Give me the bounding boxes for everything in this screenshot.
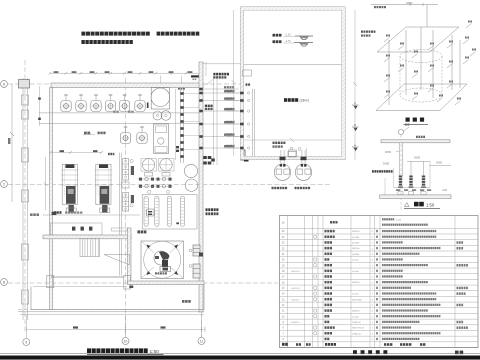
svg-text:Y200L2-6: Y200L2-6 [352,322,362,324]
water level 1 [295,36,313,40]
circled num 1 [130,159,133,162]
label block right of wall [205,105,213,108]
pump row1 3 [91,95,101,112]
valve cluster at wall bottom [203,156,207,159]
stairs [80,239,100,257]
flue diagonals [141,241,154,253]
section axis circle [398,129,403,134]
section pump stacks [399,176,402,178]
plan top wall [51,83,203,88]
flue label [155,272,167,274]
pump row1 2 [76,95,86,112]
collector dark blob [176,222,179,224]
dim numbers [54,71,59,73]
pipe to tank room [241,150,246,160]
water level 2 [294,43,313,47]
svg-text:9: 9 [25,341,27,345]
tank room dim vertical left [233,10,235,156]
label bottom left of boilers [54,211,62,214]
svg-text:B-02-P-2: B-02-P-2 [291,299,300,301]
water level labels [273,34,282,37]
dim line y215 [43,214,140,216]
svg-text:DN50: DN50 [385,151,392,154]
dark bar below dim line [191,75,199,77]
wall top line x206 [205,62,207,76]
section dim text row [396,189,400,191]
svg-text:1:50: 1:50 [426,202,435,207]
table header content [382,218,394,220]
svg-text:B: B [3,281,5,285]
softener unit [154,124,169,154]
circ pump unit 1 [142,159,154,171]
vertical wall x127 [128,228,132,284]
axis bubble 11 [201,315,203,337]
plan title [87,348,148,353]
small pump circles below tank [153,111,162,120]
stem above tank [160,76,162,84]
circled num 2 [130,204,133,207]
tank room dim vertical [354,10,356,160]
axis bubble D [1,81,8,88]
wall segment 6 [22,290,29,304]
svg-text:Q=25t/h: Q=25t/h [352,236,359,239]
axis line D [8,83,240,85]
collector frame [142,195,197,229]
axis bubble C [1,181,8,188]
svg-text:DN50: DN50 [383,163,390,166]
wall segment 4 [22,190,29,202]
manifold top valves [176,146,179,148]
section mid pipe [407,160,430,162]
axis 10 vertical dashed [125,78,127,337]
equipment table grid [279,216,478,348]
flue center cluster [154,251,168,265]
axon title [406,118,425,122]
partition wall x120 [118,153,120,276]
collector bar 1 [144,196,148,226]
plan right wall [199,62,203,312]
boiler [62,164,77,204]
riser stack upper [123,159,129,180]
flow arrow valve [147,103,149,109]
pump row1 6 [135,95,145,112]
wall segment 1 [22,95,29,105]
axis line B [8,282,278,284]
left dim line [11,84,13,202]
fitting row 1 [139,178,142,181]
svg-text:L=5.5m: L=5.5m [352,271,359,273]
svg-text:Q=25t/h: Q=25t/h [352,241,359,244]
distributor label block [206,208,219,211]
bottom room outline [31,285,204,310]
svg-text:DN1200: DN1200 [352,248,360,250]
line y314 [20,313,204,315]
svg-text:DN50: DN50 [436,162,443,165]
pipe labels on line [113,111,119,113]
label near wall bottom [246,83,251,85]
dotted equipment room [50,223,102,235]
section left label [372,170,393,172]
axon cylinder sides [399,56,401,95]
svg-text:L=5.5m: L=5.5m [352,316,359,318]
flue corner arrows [147,245,151,249]
axis bubble 10 [125,315,127,337]
svg-text:DN1200: DN1200 [352,231,360,233]
note text line 1 [81,32,149,36]
room label [182,300,191,303]
bottom dim line [26,328,205,330]
pump row1 5 [119,95,129,112]
dim line y152 [51,151,102,153]
svg-text:(18m³): (18m³) [300,99,309,103]
axon bottom plane [376,84,467,111]
section right pipe [429,165,451,167]
pipes through right wall [203,88,239,90]
room bottom dashed [18,309,204,311]
section pump pads [398,192,403,195]
axon left label [361,31,375,33]
manifold connectors to wall [184,93,200,95]
collector bar 4 [180,196,184,226]
axon vertical pipes [388,40,390,105]
axon flags [384,38,390,43]
fire pump [274,164,290,180]
svg-text:Y200L2-6: Y200L2-6 [352,333,362,335]
section dim verticals [384,178,386,195]
collector bar 3 [167,196,171,226]
wall segment horiz x111-131 [112,228,128,231]
collector top circles [148,190,151,193]
section title [405,203,410,207]
left outer wall lines [22,78,24,320]
manifold top labels [178,88,185,90]
wall band y281 [128,281,205,285]
labels above pumps [273,142,286,144]
axon cylinder bottom [400,88,442,102]
slope label [83,134,95,136]
section top beam [381,140,450,143]
flue duct through wall [199,253,203,257]
manifold valves [180,92,183,95]
expansion tank circles [184,164,197,177]
pump row1 4 [105,95,115,112]
axon top plane [377,27,459,52]
section bottom beam [380,195,451,199]
collector label bottom [137,230,146,233]
line below pumps [39,112,203,114]
tank room bottom equipment [288,152,296,157]
axis bubble 9 [25,315,27,338]
axon overflow pipe [371,4,438,6]
svg-text:GRG-2000: GRG-2000 [352,299,363,301]
svg-text:Q=25t/h: Q=25t/h [352,253,359,256]
axis left vertical dashed [24,60,26,332]
wall segment 3 [22,148,29,162]
table bottom title [353,350,387,354]
door square mid [122,182,129,188]
dosing unit label [213,73,229,76]
fire pump [295,164,311,180]
bracket under pump 1 [145,173,153,177]
collector bar 2 [155,196,159,226]
boiler [96,164,111,204]
vertical label 2 [131,195,134,203]
fire pump labels [272,187,288,189]
note text line 2 [81,40,132,44]
aux vertical line x39 [38,86,40,126]
svg-text:DN25: DN25 [414,157,421,160]
tank room center label [284,98,298,102]
axon cylinder top [400,50,442,63]
svg-text:B-07-P-4: B-07-P-4 [291,288,300,290]
interior line to tank room [203,63,241,65]
axis line C [8,184,332,186]
svg-text:4-KW: 4-KW [396,220,401,222]
section circle flag [404,127,409,131]
line below pumps 2 [39,122,203,124]
pump row2 2 [137,127,147,144]
svg-text:DN1200: DN1200 [352,311,360,313]
tank room interior line [244,64,342,66]
section pipes down [398,143,400,176]
tank circle [151,88,170,107]
chimney lower [193,264,200,278]
section dim under pumps [394,187,430,189]
boiler dim vertical [45,157,47,210]
beam end column left [47,275,54,287]
wall band y235 [43,235,131,239]
riser stack lower [123,193,129,212]
section centerline [400,135,402,210]
beam y276 left section [51,275,124,277]
beam end column right [124,275,131,289]
svg-text:B-08-P-5: B-08-P-5 [291,322,300,324]
wall segment 2 [22,110,29,119]
table total row [282,343,288,346]
chimney upper [193,245,200,256]
bottom border band [0,352,480,354]
svg-text:B-02-P-4: B-02-P-4 [291,271,300,273]
small box at wall [243,70,252,76]
tank room left riser pair [252,89,254,156]
flue square [141,241,184,279]
svg-text:GW0.7/95-70: GW0.7/95-70 [352,328,365,330]
svg-text:-1.70: -1.70 [285,40,291,43]
column at axis D [19,80,30,89]
wall segment 5 [22,244,29,260]
circ pump unit 2 frame [159,159,175,172]
tank room outer wall [241,7,346,160]
svg-text:DN50: DN50 [406,2,413,5]
circ pump unit 2 [160,159,172,171]
room bottom solid [18,311,204,313]
section markers [352,104,359,106]
tank room left valves [240,92,243,95]
vertical pipe pair right [213,76,215,165]
vertical label 1 [131,166,134,175]
pump row1 1 [61,95,71,112]
plan left wall [50,88,53,310]
stair ramp triangle [104,255,130,266]
pump row2 1 [120,127,130,144]
pump inlet box [289,150,297,157]
manifold pipes [180,89,182,163]
tank room dim line [244,139,342,141]
circ pump unit 1 frame [141,159,157,172]
svg-text:DN1200: DN1200 [352,282,360,284]
svg-text:-4.00: -4.00 [442,189,448,192]
svg-text:L=5.5m: L=5.5m [352,294,359,296]
bracket under pump 2 [162,173,170,177]
collector eq box [147,209,155,216]
flue circle [144,241,181,278]
svg-text:L=5.5m: L=5.5m [352,260,359,262]
svg-text:10: 10 [124,340,128,344]
axis bubble B [1,279,8,286]
axis 11 vertical dashed [201,75,203,337]
fitting row 2 [139,185,142,188]
svg-text:11: 11 [200,340,204,344]
svg-text:-1.20: -1.20 [285,34,291,37]
plan top dim line [50,72,200,74]
tank square [151,88,169,110]
